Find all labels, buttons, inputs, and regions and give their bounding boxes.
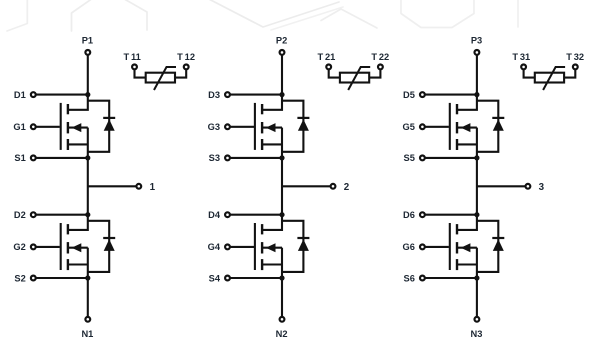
svg-text:S5: S5 [404, 153, 415, 163]
terminal output 1 [136, 184, 141, 189]
svg-text:P2: P2 [276, 35, 287, 45]
transistor Q6 source stub [458, 263, 477, 265]
terminal G1 [31, 124, 36, 129]
wire T22 lead [369, 70, 380, 78]
transistor Q5 gate bar [449, 103, 451, 150]
wire output 1 branch [88, 185, 136, 187]
terminal S5 [420, 156, 425, 161]
wire D1 to drain node [36, 94, 88, 96]
thermistor RT1 body [146, 73, 175, 83]
wire G1 to gate [36, 126, 60, 128]
transistor Q4 channel segments [261, 224, 263, 234]
svg-text:D1: D1 [14, 90, 26, 100]
svg-text:1: 1 [150, 182, 156, 193]
half-bridge leg 2 [208, 35, 390, 339]
transistor Q3 body arrow [266, 123, 276, 132]
body diode of Q5 branch wire [477, 101, 498, 152]
junction source node S2 [85, 275, 90, 280]
terminal D1 [31, 92, 36, 97]
wire T31 lead [524, 70, 535, 78]
body diode of Q4 triangle [298, 239, 309, 251]
terminal P1 [85, 50, 90, 55]
wire T32 lead [564, 70, 575, 78]
body diode of Q2 branch wire [88, 221, 109, 272]
wire T12 lead [175, 70, 186, 78]
transistor Q2 body wire [68, 247, 87, 249]
transistor Q5 drain stub [458, 95, 477, 110]
svg-text:N2: N2 [276, 329, 288, 339]
junction source node S6 [474, 275, 479, 280]
transistor Q4 body wire [263, 247, 282, 249]
wire G3 to gate [230, 126, 254, 128]
svg-text:2: 2 [344, 182, 350, 193]
transistor Q4 drain stub [263, 215, 282, 230]
thermistor RT1 diagonal [154, 67, 176, 90]
terminal N2 [280, 317, 285, 322]
transistor Q4 body arrow [266, 243, 276, 252]
body diode of Q6 cathode bar [492, 237, 504, 239]
svg-text:G6: G6 [402, 242, 414, 252]
transistor Q2 channel segments [67, 224, 69, 234]
junction source node S4 [279, 275, 284, 280]
terminal output 3 [526, 184, 531, 189]
terminal T22 [378, 65, 383, 70]
body diode of Q2 triangle [104, 239, 115, 251]
terminal D4 [225, 212, 230, 217]
transistor Q2 gate bar [60, 223, 62, 270]
body diode of Q5 triangle [493, 119, 504, 131]
svg-text:S2: S2 [14, 273, 25, 283]
junction drain node D4 [279, 212, 284, 217]
wire half-bridge midpoint [87, 158, 89, 215]
transistor Q1 drain stub [68, 95, 87, 110]
body diode of Q3 cathode bar [297, 117, 309, 119]
transistor Q1 gate bar [60, 103, 62, 150]
transistor Q1 body arrow [72, 123, 82, 132]
terminal S1 [31, 156, 36, 161]
transistor Q5 body wire [458, 127, 477, 129]
transistor Q5 body arrow [461, 123, 471, 132]
transistor Q1 source stub [68, 143, 87, 145]
svg-text:S1: S1 [14, 153, 25, 163]
wire S3 to source node [230, 157, 282, 159]
terminal G2 [31, 245, 36, 250]
watermark chevron centre [203, 0, 339, 27]
transistor Q2 body arrow [72, 243, 82, 252]
wire P3 to drain junction [476, 55, 478, 94]
terminal G3 [225, 124, 230, 129]
svg-text:N3: N3 [471, 329, 483, 339]
terminal S2 [31, 276, 36, 281]
svg-text:T11: T11 [124, 52, 141, 62]
watermark hexagon right [401, 0, 474, 28]
svg-text:D4: D4 [208, 210, 221, 220]
terminal D3 [225, 92, 230, 97]
transistor Q5 channel segments [456, 104, 458, 114]
half-bridge leg 1 [13, 35, 195, 339]
wire half-bridge midpoint [476, 158, 478, 215]
body diode of Q6 branch wire [477, 221, 498, 272]
thermistor RT2 diagonal [348, 67, 370, 90]
junction drain node D1 [85, 92, 90, 97]
wire S6 to source node [425, 277, 477, 279]
wire D2 to drain node [36, 214, 88, 216]
body diode of Q3 branch wire [282, 101, 303, 152]
wire to N3 [476, 278, 478, 316]
terminal T31 [521, 65, 526, 70]
wire to N1 [87, 278, 89, 316]
svg-text:S6: S6 [404, 273, 415, 283]
junction source node S1 [85, 155, 90, 160]
terminal T11 [132, 65, 137, 70]
svg-text:G3: G3 [208, 122, 220, 132]
terminal P3 [475, 50, 480, 55]
wire to N2 [281, 278, 283, 316]
svg-text:G5: G5 [402, 122, 414, 132]
junction drain node D5 [474, 92, 479, 97]
wire T21 lead [329, 70, 340, 78]
svg-text:G4: G4 [208, 242, 221, 252]
terminal S6 [420, 276, 425, 281]
transistor Q5 source stub [458, 143, 477, 145]
body diode of Q1 triangle [104, 119, 115, 131]
transistor Q3 gate bar [254, 103, 256, 150]
svg-text:N1: N1 [81, 329, 93, 339]
wire S2 to source node [36, 277, 88, 279]
wire D5 to drain node [425, 94, 477, 96]
terminal T21 [326, 65, 331, 70]
terminal D5 [420, 92, 425, 97]
junction drain node D3 [279, 92, 284, 97]
wire S4 to source node [230, 277, 282, 279]
terminal N1 [85, 317, 90, 322]
transistor Q6 body arrow [461, 243, 471, 252]
body diode of Q4 cathode bar [297, 237, 309, 239]
thermistor RT2 body [340, 73, 369, 83]
half-bridge leg 3 [402, 35, 584, 339]
svg-text:P3: P3 [471, 35, 482, 45]
wire G4 to gate [230, 246, 254, 248]
terminal T32 [573, 65, 578, 70]
transistor Q6 gate bar [449, 223, 451, 270]
body diode of Q1 cathode bar [103, 117, 115, 119]
watermark hexagon left [72, 0, 94, 31]
body diode of Q2 cathode bar [103, 237, 115, 239]
transistor Q3 drain stub [263, 95, 282, 110]
wire S5 to source node [425, 157, 477, 159]
terminal S4 [225, 276, 230, 281]
svg-text:S4: S4 [209, 273, 221, 283]
svg-text:D2: D2 [14, 210, 26, 220]
wire P1 to drain junction [87, 55, 89, 94]
transistor Q3 source stub [263, 143, 282, 145]
wire D4 to drain node [230, 214, 282, 216]
svg-text:T21: T21 [317, 52, 335, 62]
terminal P2 [280, 50, 285, 55]
transistor Q1 channel segments [67, 104, 69, 114]
transistor Q3 body wire [263, 127, 282, 129]
wire D3 to drain node [230, 94, 282, 96]
svg-text:G2: G2 [13, 242, 25, 252]
transistor Q4 source stub [263, 263, 282, 265]
watermark vertical far right [517, 0, 519, 27]
transistor Q6 body wire [458, 247, 477, 249]
transistor Q6 channel segments [456, 224, 458, 234]
wire S1 to source node [36, 157, 88, 159]
svg-text:G1: G1 [13, 122, 25, 132]
junction drain node D6 [474, 212, 479, 217]
thermistor RT3 diagonal [543, 67, 565, 90]
svg-text:T31: T31 [512, 52, 530, 62]
transistor Q3 channel segments [261, 104, 263, 114]
wire G2 to gate [36, 246, 60, 248]
wire output 3 branch [477, 185, 525, 187]
svg-text:3: 3 [539, 182, 545, 193]
transistor Q1 body wire [68, 127, 87, 129]
body diode of Q6 triangle [493, 239, 504, 251]
terminal S3 [225, 156, 230, 161]
thermistor RT3 body [535, 73, 564, 83]
wire P2 to drain junction [281, 55, 283, 94]
body diode of Q4 branch wire [282, 221, 303, 272]
terminal T12 [184, 65, 189, 70]
junction drain node D2 [85, 212, 90, 217]
junction source node S3 [279, 155, 284, 160]
terminal D6 [420, 212, 425, 217]
wire G5 to gate [425, 126, 449, 128]
svg-text:D3: D3 [208, 90, 220, 100]
svg-text:T12: T12 [177, 52, 195, 62]
terminal G6 [420, 245, 425, 250]
svg-text:T32: T32 [566, 52, 584, 62]
svg-text:P1: P1 [82, 35, 93, 45]
wire half-bridge midpoint [281, 158, 283, 215]
svg-text:D6: D6 [403, 210, 415, 220]
terminal G4 [225, 245, 230, 250]
transistor Q6 drain stub [458, 215, 477, 230]
svg-text:T22: T22 [371, 52, 389, 62]
body diode of Q5 cathode bar [492, 117, 504, 119]
terminal N3 [475, 317, 480, 322]
transistor Q2 drain stub [68, 215, 87, 230]
transistor Q4 gate bar [254, 223, 256, 270]
svg-text:D5: D5 [403, 90, 415, 100]
junction source node S5 [474, 155, 479, 160]
terminal G5 [420, 124, 425, 129]
wire output 2 branch [282, 185, 330, 187]
watermark hexagon fragment far left [7, 0, 27, 31]
terminal D2 [31, 212, 36, 217]
transistor Q2 source stub [68, 263, 87, 265]
body diode of Q3 triangle [298, 119, 309, 131]
terminal output 2 [331, 184, 336, 189]
wire D6 to drain node [425, 214, 477, 216]
wire G6 to gate [425, 246, 449, 248]
wire T11 lead [135, 70, 146, 78]
body diode of Q1 branch wire [88, 101, 109, 152]
svg-text:S3: S3 [209, 153, 220, 163]
